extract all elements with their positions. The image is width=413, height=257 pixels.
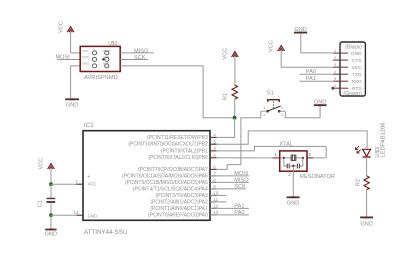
svg-text:4: 4 xyxy=(281,112,284,117)
svg-text:1: 1 xyxy=(274,152,277,157)
switch S1 xyxy=(261,90,286,117)
wire resonator pin2 to GND xyxy=(292,171,294,196)
junction GND node xyxy=(49,213,53,217)
svg-text:GND: GND xyxy=(45,231,57,237)
wire PA1 stub xyxy=(210,207,249,209)
svg-text:8: 8 xyxy=(213,178,216,183)
svg-text:GND: GND xyxy=(287,201,299,207)
wire MOSI stub xyxy=(57,59,80,61)
wire VCC to junction xyxy=(50,168,52,184)
wire MISO stub xyxy=(120,52,154,54)
svg-text:SCK: SCK xyxy=(103,55,109,59)
ground (resonator) xyxy=(287,197,300,206)
svg-text:2: 2 xyxy=(288,172,291,177)
IC1 right pin names xyxy=(122,135,208,218)
wire S1 to GND xyxy=(285,105,320,117)
wire XTAL2 net: IC1 pin3 to resonator pin3 xyxy=(210,146,326,158)
svg-text:RXD: RXD xyxy=(351,79,362,85)
IC1 ATTINY44-SSU xyxy=(83,122,210,236)
svg-text:CTS: CTS xyxy=(352,58,362,64)
svg-text:5: 5 xyxy=(334,77,336,81)
resistor R2 xyxy=(356,176,370,190)
svg-text:1: 1 xyxy=(263,105,266,110)
svg-text:(PCINT0/AREF/ADC0)PA0: (PCINT0/AREF/ADC0)PA0 xyxy=(148,212,208,218)
wire xyxy=(71,52,81,54)
svg-text:RTS: RTS xyxy=(352,86,362,92)
IC1 right pin numbers xyxy=(213,133,219,215)
svg-text:(PCINT10/INT0/OC0A/CXOUT)PB2: (PCINT10/INT0/OC0A/CXOUT)PB2 xyxy=(128,142,208,148)
svg-text:(PCINT3/T0/ADC3)PA3: (PCINT3/T0/ADC3)PA3 xyxy=(156,193,208,199)
ground (R2) xyxy=(360,217,373,227)
svg-text:6: 6 xyxy=(334,84,336,88)
svg-text:7: 7 xyxy=(213,171,216,176)
IC1 pin stubs xyxy=(77,137,217,215)
svg-text:GND: GND xyxy=(314,99,326,105)
wire VCC to R1 xyxy=(234,56,236,85)
svg-text:ATTINY44-SSU: ATTINY44-SSU xyxy=(84,229,127,236)
svg-text:R2: R2 xyxy=(356,179,362,186)
svg-text:RST: RST xyxy=(103,62,109,66)
wire MOSI stub xyxy=(210,175,249,177)
svg-text:VCC: VCC xyxy=(39,158,45,170)
svg-text:MISO: MISO xyxy=(103,49,111,53)
svg-text:11: 11 xyxy=(213,197,218,202)
svg-text:(PCINT6/OC1A/SDA/MOSI/ADC6)PA6: (PCINT6/OC1A/SDA/MOSI/ADC6)PA6 xyxy=(122,173,208,179)
svg-text:VCC: VCC xyxy=(82,49,88,53)
wire SCK stub xyxy=(210,188,246,190)
resistor R1 xyxy=(223,85,238,100)
svg-text:(PCINT8/XTAL1/CLKI)PB0: (PCINT8/XTAL1/CLKI)PB0 xyxy=(148,155,208,161)
svg-text:13: 13 xyxy=(213,210,219,215)
wire MISO stub xyxy=(210,181,249,183)
wire FTDI VCC xyxy=(281,50,333,67)
wire junction to IC1 pin4 xyxy=(210,118,235,138)
svg-text:S1: S1 xyxy=(267,90,274,96)
wire PA1 to RXD xyxy=(300,80,333,82)
svg-text:VCC: VCC xyxy=(268,40,274,52)
svg-text:VCC: VCC xyxy=(351,65,362,71)
wire pin11 stub xyxy=(210,201,227,203)
wire PA7 net: IC1 pin6 to S1 xyxy=(210,111,261,169)
svg-text:GND: GND xyxy=(294,27,306,33)
resonator XTAL xyxy=(273,151,335,180)
svg-text:C1: C1 xyxy=(38,200,44,207)
svg-text:TXD: TXD xyxy=(352,72,362,78)
svg-text:2: 2 xyxy=(334,56,336,60)
VCC symbol (ISP) xyxy=(58,21,74,33)
VCC symbol (R1) xyxy=(222,48,238,60)
connector U$1 AVRISPSMD xyxy=(80,41,120,81)
ground (C1) xyxy=(45,230,57,238)
wire R1 to junction xyxy=(234,99,236,117)
wire PB2 net: IC1 pin5 to LED xyxy=(210,131,367,148)
wire VCC to U$1 pin VCC xyxy=(70,31,72,53)
FTDI pin names xyxy=(351,51,362,92)
svg-text:LEDFAB1206: LEDFAB1206 xyxy=(381,122,387,157)
wire pin10 stub xyxy=(210,194,227,196)
svg-text:U$1: U$1 xyxy=(108,41,118,47)
FTDI pin numbers xyxy=(334,49,336,88)
svg-text:(PCINT2/AIN1/ADC2)PA2: (PCINT2/AIN1/ADC2)PA2 xyxy=(150,199,208,205)
VCC symbol (C1) xyxy=(39,158,55,170)
svg-text:4: 4 xyxy=(334,70,336,74)
svg-text:2: 2 xyxy=(263,112,266,117)
wire junction to IC1 pin14 xyxy=(51,214,83,216)
junction VCC node xyxy=(49,182,53,186)
VCC symbol (FTDI) xyxy=(268,40,284,52)
wire SCK stub xyxy=(120,59,148,61)
svg-text:IC1: IC1 xyxy=(84,122,94,129)
FTDI pin stubs xyxy=(333,53,348,88)
svg-text:GND: GND xyxy=(360,222,372,228)
svg-text:(PCINT7/ICP/OC0B/ADC7)PA7: (PCINT7/ICP/OC0B/ADC7)PA7 xyxy=(138,167,208,173)
svg-text:(PCINT4/T1/SCL/SCK/ADC4)PA4: (PCINT4/T1/SCL/SCK/ADC4)PA4 xyxy=(133,186,208,192)
svg-text:5: 5 xyxy=(213,139,216,144)
svg-text:6: 6 xyxy=(213,165,216,170)
svg-text:12: 12 xyxy=(213,204,219,209)
svg-text:10: 10 xyxy=(213,191,219,196)
wire LED to R2 xyxy=(366,157,368,176)
svg-text:VCC: VCC xyxy=(222,48,228,60)
svg-text:1: 1 xyxy=(75,179,78,184)
ground (S1, mirrored) xyxy=(314,99,327,105)
svg-text:MOS: MOS xyxy=(82,55,89,59)
svg-text:4: 4 xyxy=(213,133,216,138)
svg-text:AVRISPSMD: AVRISPSMD xyxy=(84,75,118,81)
wire junction to IC1 pin1 xyxy=(51,183,83,185)
svg-text:2: 2 xyxy=(213,153,216,158)
svg-text:VCC: VCC xyxy=(58,21,64,33)
svg-text:(Black): (Black) xyxy=(345,44,362,50)
wire R2 to GND xyxy=(366,190,368,217)
wire junction down to C1 xyxy=(50,184,52,198)
svg-text:(PCINT11/RESET/DW)PB3: (PCINT11/RESET/DW)PB3 xyxy=(147,135,208,141)
wire RST net to reset junction xyxy=(120,66,234,118)
svg-text:MISO: MISO xyxy=(134,49,149,55)
wire PA0 to TXD xyxy=(300,73,333,75)
wire XTAL1 net: IC1 pin2 to resonator pin1 xyxy=(210,157,284,159)
wire C1 to junction GND xyxy=(50,202,52,215)
wire PA0 stub xyxy=(210,214,249,216)
U$1 pin pads xyxy=(92,51,108,68)
RTS stub dot xyxy=(331,87,334,90)
svg-text:3: 3 xyxy=(281,105,284,110)
svg-text:RESONATOR: RESONATOR xyxy=(300,174,335,180)
svg-text:GND: GND xyxy=(66,102,78,108)
svg-text:(PCINT1/AIN0/ADC1)PA1: (PCINT1/AIN0/ADC1)PA1 xyxy=(150,206,208,212)
svg-text:XTAL: XTAL xyxy=(279,141,293,147)
svg-text:GND: GND xyxy=(88,214,97,219)
svg-text:+: + xyxy=(87,174,90,180)
svg-text:(PCINT5/OC1B/MISO/DO/ADC5)PA5: (PCINT5/OC1B/MISO/DO/ADC5)PA5 xyxy=(125,180,208,186)
IC1 left pin numbers xyxy=(73,179,79,215)
svg-text:GND: GND xyxy=(82,62,88,66)
ground (below U$1) xyxy=(65,99,79,108)
svg-text:9: 9 xyxy=(213,184,216,189)
svg-text:(PCINT9/XTAL2)PB1: (PCINT9/XTAL2)PB1 xyxy=(161,148,208,154)
svg-text:GND: GND xyxy=(351,51,362,57)
ground (FTDI, mirrored) xyxy=(294,27,307,33)
capacitor C1 xyxy=(38,199,56,208)
svg-text:14: 14 xyxy=(73,210,79,215)
wire junction down to GND xyxy=(50,215,52,229)
svg-text:R1: R1 xyxy=(223,93,229,100)
wire FTDI GND xyxy=(301,33,333,53)
LED U$3 xyxy=(356,122,387,157)
svg-text:VCC: VCC xyxy=(88,181,97,186)
junction RESET net xyxy=(233,116,237,120)
U$1 pin labels xyxy=(82,49,110,66)
svg-text:3: 3 xyxy=(334,63,336,67)
svg-text:1: 1 xyxy=(334,49,336,53)
svg-text:3: 3 xyxy=(308,152,311,157)
svg-text:3: 3 xyxy=(213,146,216,151)
wire U$1 GND down xyxy=(71,66,81,99)
connector FTDI xyxy=(340,42,365,97)
